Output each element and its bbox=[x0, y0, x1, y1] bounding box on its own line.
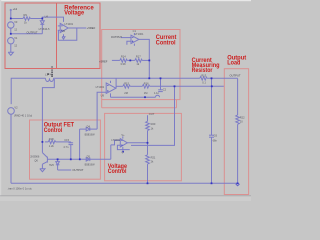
wire U11 plus input bbox=[117, 145, 129, 149]
resistor R18 bbox=[48, 140, 55, 144]
wire U4 bottom riser bbox=[41, 26, 43, 34]
annotation box current control bbox=[102, 30, 180, 100]
wire U11 minus input bbox=[111, 140, 121, 145]
node rail x160 bbox=[160, 77, 162, 79]
wire bottom return rail bbox=[11, 182, 238, 184]
wire R18 row bbox=[45, 141, 48, 143]
resistor R21 bbox=[146, 155, 150, 164]
node base row c bbox=[79, 158, 81, 160]
svg-text:OUTPUT: OUTPUT bbox=[27, 30, 38, 34]
svg-text:LT1634-5: LT1634-5 bbox=[39, 27, 50, 31]
wire load column bbox=[237, 78, 239, 115]
svg-text:R16: R16 bbox=[144, 81, 149, 85]
svg-text:4µ: 4µ bbox=[50, 73, 53, 77]
svg-text:3.3K: 3.3K bbox=[120, 62, 126, 66]
resistor R15 bbox=[123, 85, 130, 89]
svg-text:R17: R17 bbox=[136, 55, 141, 59]
svg-text:C15: C15 bbox=[64, 138, 69, 142]
tiny component labels bbox=[7, 7, 245, 190]
node squares bbox=[10, 18, 239, 186]
wire R17 to node bbox=[142, 59, 149, 61]
inductor L1 bbox=[46, 78, 54, 81]
wire U10 output elbow bbox=[139, 39, 149, 78]
opamp input polarity marks bbox=[61, 26, 133, 146]
svg-text:1M: 1M bbox=[144, 91, 148, 95]
svg-text:B5819W: B5819W bbox=[85, 133, 96, 137]
wire R14 to R17 bbox=[127, 59, 135, 61]
wire Q6 base row bbox=[48, 158, 111, 160]
svg-text:OUTPUT: OUTPUT bbox=[72, 168, 83, 172]
wire U11 output bbox=[127, 142, 147, 144]
wire U5 feedback loop bbox=[58, 28, 76, 40]
op-amp U9 bbox=[106, 83, 116, 93]
svg-text:D5: D5 bbox=[87, 155, 91, 159]
svg-text:R18: R18 bbox=[49, 137, 54, 141]
svg-text:V3: V3 bbox=[14, 20, 18, 24]
svg-text:OUT: OUT bbox=[149, 112, 155, 116]
svg-text:5V6: 5V6 bbox=[49, 163, 54, 167]
svg-text:(RND 40 1 10u): (RND 40 1 10u) bbox=[14, 113, 32, 117]
svg-text:V2: V2 bbox=[14, 106, 18, 110]
svg-text:D4: D4 bbox=[87, 125, 91, 129]
node return x211 bbox=[211, 182, 213, 184]
resistor R14 bbox=[120, 59, 127, 63]
resistor R9 bbox=[23, 17, 30, 21]
ground V1 bbox=[8, 52, 13, 55]
svg-text:R22: R22 bbox=[240, 116, 245, 120]
wire row2 to x211 column bbox=[150, 85, 224, 87]
voltage source V3 bbox=[8, 22, 14, 28]
svg-text:OUTPUT: OUTPUT bbox=[230, 73, 241, 77]
ground Q6 bbox=[40, 169, 45, 172]
wire main rail left corner bbox=[11, 78, 45, 104]
svg-text:1.2k: 1.2k bbox=[49, 144, 55, 148]
op-amp U11 voltage control bbox=[120, 139, 127, 147]
annotation line below current control bbox=[101, 100, 103, 108]
wire feedback column x174.5 bbox=[131, 86, 175, 145]
svg-text:LT1001: LT1001 bbox=[135, 32, 144, 36]
svg-text:R9: R9 bbox=[24, 13, 28, 17]
directive speck column bbox=[47, 66, 53, 77]
wire diodes to U9 plus input bbox=[97, 92, 106, 129]
node rail x211 bbox=[211, 77, 213, 79]
annotation divider reference box left edge bbox=[56, 3, 58, 69]
diode D4 bbox=[80, 128, 87, 130]
svg-text:U4: U4 bbox=[45, 15, 49, 19]
svg-text:V1: V1 bbox=[14, 36, 18, 40]
wire U5 V- pin bbox=[63, 34, 65, 37]
zener D6 bbox=[57, 159, 59, 161]
node R row bbox=[148, 60, 150, 62]
wire U9 V- row bbox=[111, 96, 156, 98]
op-amp U10 current control bbox=[131, 35, 139, 43]
wire main rail middle bbox=[54, 77, 200, 79]
svg-text:LT1001: LT1001 bbox=[96, 85, 105, 89]
wire zener to OUTPUT label bbox=[58, 169, 72, 171]
svg-text:R13: R13 bbox=[201, 73, 206, 77]
svg-text:+5REF: +5REF bbox=[99, 60, 108, 64]
svg-text:68n: 68n bbox=[213, 138, 218, 142]
wire diode link column bbox=[79, 129, 81, 159]
wire output row bbox=[11, 33, 43, 35]
node rail x148 bbox=[148, 77, 150, 79]
ground flag U5 bbox=[62, 37, 65, 39]
node return x237 bbox=[237, 182, 239, 184]
node U4 top bbox=[41, 18, 43, 20]
svg-text:LT1001: LT1001 bbox=[65, 22, 74, 26]
svg-text:+5REF: +5REF bbox=[87, 26, 96, 30]
wire R9 to U4 node bbox=[30, 18, 42, 20]
node divider mid bbox=[147, 142, 149, 144]
svg-text:C6: C6 bbox=[214, 133, 218, 137]
wire +5REF row bbox=[112, 59, 120, 61]
node base row b bbox=[70, 158, 72, 160]
resistor R13 current shunt bbox=[200, 77, 207, 81]
wire hook end bbox=[156, 95, 160, 97]
wire FET gate drop bbox=[42, 79, 54, 142]
node +12 bbox=[10, 18, 12, 20]
svg-text:R20: R20 bbox=[151, 122, 156, 126]
svg-text:Control: Control bbox=[108, 168, 127, 175]
junction diamond load return bbox=[236, 183, 239, 186]
voltage source V2 bbox=[8, 108, 15, 115]
svg-text:2M: 2M bbox=[124, 91, 128, 95]
resistor R17 bbox=[135, 59, 142, 63]
node return x147 bbox=[147, 182, 149, 184]
wire R15 to R16 bbox=[130, 85, 142, 87]
resistor R22 load bbox=[236, 115, 240, 124]
svg-text:C2: C2 bbox=[163, 87, 167, 91]
svg-text:B5819W: B5819W bbox=[85, 162, 96, 166]
ground flag U11 V- bbox=[122, 151, 124, 153]
svg-text:.tran 0 100m 0 1u uic: .tran 0 100m 0 1u uic bbox=[7, 186, 32, 190]
wire +12 node to R9 bbox=[11, 18, 23, 20]
svg-text:U9: U9 bbox=[101, 93, 105, 97]
svg-text:Load: Load bbox=[227, 59, 240, 66]
annotation big box top-left bbox=[5, 3, 100, 69]
svg-text:+12: +12 bbox=[13, 7, 18, 11]
op-amp U5 bbox=[60, 23, 68, 32]
annotation box voltage control bbox=[105, 113, 182, 180]
node V3 output bbox=[10, 33, 12, 35]
transistor Q6 bbox=[41, 142, 43, 153]
wire comp cap drop bbox=[160, 78, 162, 90]
svg-text:Control: Control bbox=[156, 39, 176, 46]
svg-text:0.1: 0.1 bbox=[202, 81, 206, 85]
diode D5 bbox=[86, 158, 90, 162]
capacitor C2 bbox=[158, 89, 163, 91]
svg-text:2N3906: 2N3906 bbox=[30, 155, 40, 159]
annotation box output load bbox=[224, 69, 248, 195]
svg-text:U5: U5 bbox=[62, 29, 66, 33]
svg-text:V-: V- bbox=[121, 150, 124, 154]
shunt reference U4 LT1634 bbox=[41, 19, 43, 21]
svg-text:Control: Control bbox=[44, 127, 63, 134]
capacitor C6 bbox=[209, 134, 214, 136]
node row2 x211 bbox=[211, 85, 213, 87]
capacitor C15 bbox=[69, 142, 74, 144]
annotation box output FET control bbox=[30, 120, 101, 179]
resistor R16 bbox=[142, 85, 149, 89]
wire U9 output riser bbox=[115, 78, 117, 88]
wire +12 stub bbox=[10, 10, 12, 19]
svg-text:LT1001: LT1001 bbox=[111, 138, 120, 142]
node R14 R17 junction bbox=[129, 60, 131, 62]
svg-text:R15: R15 bbox=[124, 81, 129, 85]
svg-text:R21: R21 bbox=[151, 155, 156, 159]
svg-text:Q6: Q6 bbox=[34, 159, 38, 163]
node row2 x174 bbox=[174, 85, 176, 87]
svg-text:OUTPUT: OUTPUT bbox=[111, 35, 122, 39]
svg-text:R14: R14 bbox=[121, 55, 126, 59]
net flag +12 chevron bbox=[10, 9, 12, 10]
wire U4 node to opamp V+ bbox=[42, 17, 63, 22]
svg-text:1.1n: 1.1n bbox=[154, 91, 160, 95]
voltage source V1 bbox=[8, 38, 14, 44]
resistor R20 bbox=[147, 115, 149, 121]
node V- row bbox=[144, 96, 146, 98]
svg-text:C1: C1 bbox=[133, 29, 137, 33]
wire main rail right bbox=[207, 77, 238, 79]
wire sense column x211 bbox=[211, 78, 213, 135]
svg-text:Resistor: Resistor bbox=[192, 67, 213, 74]
svg-text:V+: V+ bbox=[121, 133, 125, 137]
wire U9 output row bbox=[116, 85, 123, 87]
wire U11 minus to base row bbox=[110, 145, 112, 159]
svg-text:Voltage: Voltage bbox=[64, 10, 84, 17]
wire U5 output bbox=[68, 27, 86, 29]
svg-text:4.7n: 4.7n bbox=[63, 145, 69, 149]
node base row a bbox=[57, 158, 59, 160]
wire R18 to C15 bbox=[56, 141, 71, 143]
node Q6 gate bbox=[42, 141, 44, 143]
